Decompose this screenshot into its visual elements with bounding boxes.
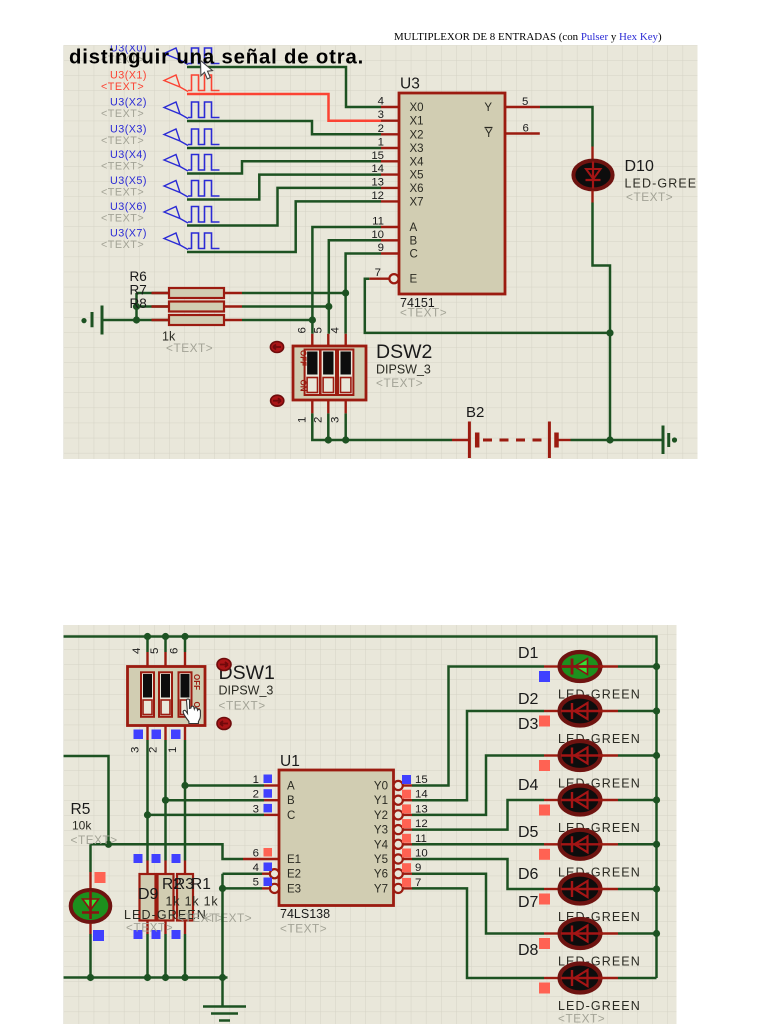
DSW1 switch slot 2 xyxy=(159,672,172,717)
wire D10 cathode down to battery rail xyxy=(593,203,611,441)
resistor R6 xyxy=(137,292,170,295)
svg-text:2: 2 xyxy=(148,747,160,753)
wire U3(X7) to pin xyxy=(187,201,381,252)
junction D10 rail/battery rail xyxy=(606,436,613,443)
svg-text:2: 2 xyxy=(253,789,259,801)
U1 pin 3 (C) xyxy=(264,814,279,816)
wire R6 to DSW2 column xyxy=(242,292,346,295)
svg-text:15: 15 xyxy=(415,774,428,786)
DSW1 pin 2 bottom xyxy=(164,726,166,741)
wire E1 rail xyxy=(91,844,244,859)
mouse cursor xyxy=(201,61,213,79)
LED D10 xyxy=(591,147,593,160)
svg-text:<TEXT>: <TEXT> xyxy=(101,213,144,225)
junction DSW2 pin2/rail xyxy=(325,436,332,443)
svg-text:12: 12 xyxy=(371,190,384,202)
svg-text:D4: D4 xyxy=(518,777,539,794)
resistor column x=185 xyxy=(184,861,186,875)
svg-text:U1: U1 xyxy=(280,753,300,770)
junction anode bus xyxy=(653,885,660,892)
junction B xyxy=(162,797,169,804)
junction anode bus xyxy=(653,707,660,714)
svg-text:U3(X4): U3(X4) xyxy=(110,149,147,161)
junction R3/ground rail xyxy=(144,974,151,981)
svg-text:E2: E2 xyxy=(287,869,301,881)
svg-text:D6: D6 xyxy=(518,866,539,883)
wire B column (pin 10 to DSW2 pin 5) xyxy=(329,240,381,333)
svg-text:Y3: Y3 xyxy=(374,825,388,837)
U1 pin 6 (E1) xyxy=(243,858,279,860)
DSW2 pin 3 xyxy=(345,400,347,413)
svg-text:<TEXT>: <TEXT> xyxy=(101,81,144,93)
wire U3(X3) to pin xyxy=(187,147,381,150)
generator U3(X7) xyxy=(101,228,220,252)
LED D5 xyxy=(544,843,559,845)
junction R7/B column xyxy=(325,303,332,310)
svg-text:<TEXT>: <TEXT> xyxy=(166,341,213,355)
U3 pin 10 stub xyxy=(381,239,399,241)
wire top supply bus xyxy=(64,637,657,979)
svg-text:10k: 10k xyxy=(72,819,92,833)
svg-text:<TEXT>: <TEXT> xyxy=(400,306,447,320)
wire R7 to DSW2 column xyxy=(242,305,329,308)
generator U3(X3) xyxy=(101,124,220,148)
svg-text:X5: X5 xyxy=(410,170,424,182)
svg-text:U3(X3): U3(X3) xyxy=(110,124,147,136)
U1 pin 1 (A) xyxy=(264,784,279,786)
svg-text:4: 4 xyxy=(131,648,143,654)
chip U1 74LS138 body xyxy=(279,770,394,906)
svg-text:<TEXT>: <TEXT> xyxy=(71,833,118,847)
svg-text:Y7: Y7 xyxy=(374,883,388,895)
svg-text:R1: R1 xyxy=(191,876,211,893)
generator U3(X0) xyxy=(101,43,220,67)
svg-text:Y2: Y2 xyxy=(374,810,388,822)
svg-text:13: 13 xyxy=(415,803,428,815)
junction DSW2 pin3/rail xyxy=(342,436,349,443)
resistor R7 xyxy=(137,305,170,308)
svg-text:X4: X4 xyxy=(410,156,425,168)
wire left resistor bus xyxy=(135,293,138,320)
svg-text:<TEXT>: <TEXT> xyxy=(558,1012,605,1024)
svg-text:3: 3 xyxy=(378,109,384,121)
wire U3(X1) to pin xyxy=(187,94,381,121)
DSW1 switch slot 3 xyxy=(179,672,192,717)
DSW2 pin 5 xyxy=(327,334,329,346)
DSW1 switch slot 1 xyxy=(141,672,154,717)
junction A xyxy=(181,782,188,789)
svg-text:4: 4 xyxy=(330,327,342,333)
svg-text:D3: D3 xyxy=(518,716,539,733)
svg-text:74LS138: 74LS138 xyxy=(280,907,330,921)
wire R5 feed xyxy=(64,756,109,844)
svg-text:2: 2 xyxy=(312,417,324,423)
svg-text:2: 2 xyxy=(378,123,384,135)
svg-text:4: 4 xyxy=(378,96,384,108)
junction anode bus xyxy=(653,663,660,670)
wire Y5 to D6 xyxy=(412,859,544,889)
resistor column x=147.5 xyxy=(146,861,148,875)
svg-text:D2: D2 xyxy=(518,691,539,708)
generator U3(X6) xyxy=(101,201,220,225)
svg-text:1: 1 xyxy=(378,137,384,149)
wire DSW1 pin1 column to A xyxy=(184,740,187,861)
svg-text:D5: D5 xyxy=(518,824,539,841)
svg-text:3: 3 xyxy=(330,417,342,423)
wire B to U1 pin2 xyxy=(166,799,265,802)
wire C to U1 pin3 xyxy=(148,814,265,817)
wire E pin to D10 rail xyxy=(365,279,610,333)
wire DSW2 pins to battery rail xyxy=(312,413,452,440)
svg-text:7: 7 xyxy=(415,877,421,889)
wire Y1 to D2 xyxy=(412,711,544,800)
dip switch DSW1 xyxy=(128,667,206,726)
svg-text:6: 6 xyxy=(296,327,308,333)
svg-text:Y: Y xyxy=(485,128,493,140)
svg-text:6: 6 xyxy=(169,648,181,654)
svg-text:B2: B2 xyxy=(466,404,484,421)
svg-text:13: 13 xyxy=(371,176,384,188)
U1 pin 13 (Y2) xyxy=(394,810,403,819)
svg-text:A: A xyxy=(410,222,418,234)
junction E3 xyxy=(219,885,226,892)
wire R8 to DSW2 column xyxy=(242,319,312,322)
DSW1 pin 5 top xyxy=(164,637,167,653)
svg-text:1: 1 xyxy=(253,774,259,786)
svg-text:11: 11 xyxy=(415,833,427,845)
svg-text:7: 7 xyxy=(375,267,381,279)
bottom schematic background xyxy=(64,625,677,1024)
LED D3 xyxy=(544,754,559,756)
wire Y0 to D1 xyxy=(412,667,544,786)
svg-text:R8: R8 xyxy=(130,296,147,311)
LED D6 xyxy=(544,888,559,890)
junction R1/ground rail xyxy=(181,974,188,981)
svg-text:<TEXT>: <TEXT> xyxy=(205,911,252,925)
junction R2/ground rail xyxy=(162,974,169,981)
junction anode bus xyxy=(653,796,660,803)
svg-text:<TEXT>: <TEXT> xyxy=(376,376,423,390)
svg-text:MULTIPLEXOR DE 8 ENTRADAS (con: MULTIPLEXOR DE 8 ENTRADAS (con Pulser y … xyxy=(394,31,662,43)
junction C xyxy=(144,811,151,818)
wire U3(X6) to pin xyxy=(187,188,381,226)
svg-text:1: 1 xyxy=(296,417,308,423)
junction R5/E1 rail xyxy=(105,841,112,848)
svg-text:<TEXT>: <TEXT> xyxy=(126,921,173,935)
svg-text:DIPSW_3: DIPSW_3 xyxy=(219,684,274,698)
svg-text:6: 6 xyxy=(253,848,259,860)
U1 pin 5 (E3) xyxy=(270,884,279,893)
svg-text:B: B xyxy=(287,795,295,807)
DSW1 pin 4 top xyxy=(146,637,149,653)
wire DSW1 pin2 column to B xyxy=(164,740,167,861)
junction bus/R8 xyxy=(133,316,140,323)
wire C column (pin 9 to DSW2 pin 4) xyxy=(346,254,381,334)
svg-text:5: 5 xyxy=(522,96,528,108)
svg-text:14: 14 xyxy=(371,163,384,175)
svg-text:Y0: Y0 xyxy=(374,781,388,793)
svg-text:<TEXT>: <TEXT> xyxy=(101,239,144,251)
U1 pin 10 (Y5) xyxy=(394,854,403,863)
svg-text:A: A xyxy=(287,781,295,793)
svg-text:11: 11 xyxy=(372,216,384,228)
svg-text:6: 6 xyxy=(523,123,529,135)
svg-text:D7: D7 xyxy=(518,894,539,911)
svg-text:OFF: OFF xyxy=(192,674,201,690)
junction anode bus xyxy=(653,752,660,759)
junction anode bus xyxy=(653,930,660,937)
U3 pin 9 stub xyxy=(381,252,399,254)
DSW2 actuator button up xyxy=(270,342,283,353)
battery B2 xyxy=(452,439,469,441)
svg-text:4: 4 xyxy=(253,862,259,874)
U1 pin 11 (Y4) xyxy=(394,840,403,849)
junction D9/ground rail xyxy=(87,974,94,981)
LED D9 xyxy=(89,844,92,872)
U3 pin 6 (Ybar) stub xyxy=(505,132,540,134)
U3 pin stubs X0-X7 xyxy=(381,106,399,108)
svg-text:U3(X2): U3(X2) xyxy=(110,97,147,109)
svg-text:C: C xyxy=(287,810,295,822)
svg-text:U3: U3 xyxy=(400,76,420,93)
svg-text:X2: X2 xyxy=(410,129,424,141)
svg-text:<TEXT>: <TEXT> xyxy=(626,190,673,204)
junction anode bus xyxy=(653,841,660,848)
svg-text:9: 9 xyxy=(415,862,421,874)
LED D1 xyxy=(544,665,559,667)
U1 pin 12 (Y3) xyxy=(394,825,403,834)
wire Y6 to D7 xyxy=(412,874,544,934)
DSW2 pin 6 xyxy=(311,334,313,346)
svg-text:<TEXT>: <TEXT> xyxy=(101,187,144,199)
junction R8/A column xyxy=(309,316,316,323)
svg-text:DSW2: DSW2 xyxy=(376,341,432,363)
svg-text:LED-GREEN: LED-GREEN xyxy=(625,177,708,191)
svg-text:<TEXT>: <TEXT> xyxy=(219,699,266,713)
U1 pin 2 (B) xyxy=(264,799,279,801)
U1 pin 7 (Y7) xyxy=(394,884,403,893)
generator U3(X5) xyxy=(101,175,220,199)
wire A column (pin 11 to DSW2 pin 6) xyxy=(312,227,381,334)
DSW1 actuator button down xyxy=(217,718,231,730)
U3 pin 7 (E) circle and stub xyxy=(389,274,398,283)
svg-text:<TEXT>: <TEXT> xyxy=(101,135,144,147)
svg-text:X7: X7 xyxy=(410,196,424,208)
svg-text:3: 3 xyxy=(130,747,142,753)
wire E2/E3 to ground rail xyxy=(221,874,224,978)
svg-text:E1: E1 xyxy=(287,854,301,866)
svg-text:ON: ON xyxy=(299,380,308,392)
DSW2 switch slot 1 xyxy=(305,350,320,396)
svg-text:12: 12 xyxy=(415,818,428,830)
svg-text:X1: X1 xyxy=(410,116,424,128)
resistor R8 xyxy=(137,319,170,322)
wire Y7 to D8 xyxy=(412,888,544,978)
svg-text:Y1: Y1 xyxy=(374,795,388,807)
wire ground rail xyxy=(64,976,228,979)
svg-text:5: 5 xyxy=(149,648,161,654)
svg-text:U3(X7): U3(X7) xyxy=(110,228,147,240)
svg-text:9: 9 xyxy=(378,242,384,254)
DSW2 switch slot 2 xyxy=(321,350,336,396)
svg-text:10: 10 xyxy=(415,848,428,860)
ground symbol xyxy=(221,978,224,1007)
svg-text:E: E xyxy=(410,274,418,286)
svg-text:U3(X5): U3(X5) xyxy=(110,175,147,187)
svg-text:1: 1 xyxy=(167,747,179,753)
DSW1 actuator button up xyxy=(217,659,231,671)
wire DSW1 pin3 column to C xyxy=(146,740,149,861)
wire A to U1 pin1 xyxy=(185,784,264,787)
U1 pin 15 (Y0) xyxy=(394,781,403,790)
svg-text:Y: Y xyxy=(484,102,492,114)
svg-text:D9: D9 xyxy=(138,886,159,903)
DSW2 actuator button down xyxy=(271,395,284,406)
DSW1 pin 3 bottom xyxy=(146,726,148,741)
svg-text:5: 5 xyxy=(253,877,259,889)
DSW1 pin 6 top xyxy=(184,637,187,653)
svg-text:R5: R5 xyxy=(71,801,91,818)
wire U3(X4) to pin xyxy=(187,161,381,173)
svg-text:X0: X0 xyxy=(410,102,424,114)
junction E-wire / D10 rail xyxy=(606,329,613,336)
U1 pin 9 (Y6) xyxy=(394,869,403,878)
LED D2 xyxy=(544,710,559,712)
svg-text:1k 1k 1k: 1k 1k 1k xyxy=(166,895,219,909)
svg-text:Y4: Y4 xyxy=(374,839,389,851)
dip switch DSW2 xyxy=(293,346,366,400)
svg-text:Y6: Y6 xyxy=(374,869,388,881)
svg-text:DIPSW_3: DIPSW_3 xyxy=(376,363,431,377)
svg-text:Y5: Y5 xyxy=(374,854,388,866)
DSW2 pin 4 xyxy=(345,334,347,346)
svg-text:X6: X6 xyxy=(410,183,424,195)
svg-text:<TEXT>: <TEXT> xyxy=(101,108,144,120)
generator U3(X1) xyxy=(101,70,220,94)
DSW2 pin 2 xyxy=(327,400,329,413)
U3 pin 11 stub xyxy=(381,226,399,228)
svg-text:<TEXT>: <TEXT> xyxy=(280,922,327,936)
wire U3(X5) to pin xyxy=(187,175,381,200)
wire U3(X0) to pin xyxy=(187,67,381,107)
op chip U3 74151 body xyxy=(399,93,505,294)
wire battery to right terminal xyxy=(571,439,662,442)
U1 pin 14 (Y1) xyxy=(394,796,403,805)
wire U3(X2) to pin xyxy=(187,121,381,134)
svg-text:5: 5 xyxy=(312,327,324,333)
svg-text:B: B xyxy=(410,235,418,247)
U3 pin 5 (Y) stub and wire to D10 xyxy=(505,106,540,108)
junction ground rail xyxy=(219,974,226,981)
resistor column x=165.5 xyxy=(164,861,166,875)
svg-text:D8: D8 xyxy=(518,942,539,959)
svg-text:OFF: OFF xyxy=(299,350,308,366)
DSW1 pin 1 bottom xyxy=(184,726,186,741)
U1 pin 4 (E2) xyxy=(270,869,279,878)
svg-text:U3(X6): U3(X6) xyxy=(110,201,147,213)
svg-text:E3: E3 xyxy=(287,883,301,895)
hand cursor xyxy=(183,699,200,724)
LED D4 xyxy=(544,799,559,801)
generator U3(X4) xyxy=(101,149,220,173)
junction R6/C column xyxy=(342,289,349,296)
wire Y2 to D3 xyxy=(412,756,544,815)
DSW2 pin 1 xyxy=(311,400,313,413)
generator U3(X2) xyxy=(101,97,220,121)
top schematic background xyxy=(64,45,698,459)
svg-text:D1: D1 xyxy=(518,645,539,662)
svg-text:U3(X1): U3(X1) xyxy=(110,70,147,82)
wire Y3 to D4 xyxy=(412,800,544,830)
svg-text:D10: D10 xyxy=(625,158,654,175)
DSW2 switch slot 3 xyxy=(338,350,353,396)
svg-text:distinguir una señal de otra.: distinguir una señal de otra. xyxy=(69,47,364,69)
LED D7 xyxy=(544,932,559,934)
svg-text:C: C xyxy=(410,249,418,261)
left DC terminal xyxy=(81,318,86,323)
right DC terminal xyxy=(663,426,669,455)
svg-text:15: 15 xyxy=(371,150,384,162)
svg-text:3: 3 xyxy=(253,803,259,815)
svg-text:<TEXT>: <TEXT> xyxy=(101,161,144,173)
svg-text:14: 14 xyxy=(415,789,428,801)
junction bus/R7 xyxy=(133,303,140,310)
wire Y4 to D5 xyxy=(412,843,544,846)
LED D8 xyxy=(544,977,559,979)
svg-text:X3: X3 xyxy=(410,143,424,155)
svg-text:10: 10 xyxy=(371,229,384,241)
